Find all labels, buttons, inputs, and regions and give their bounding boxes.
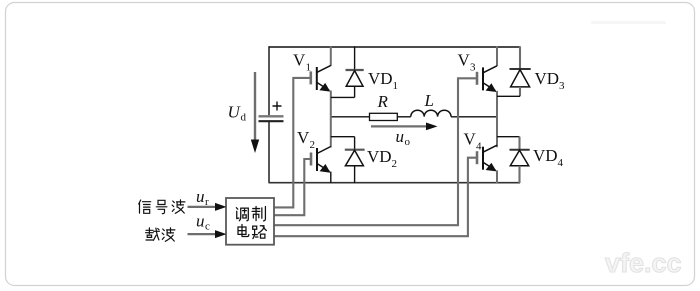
wire V3 gate bbox=[274, 78, 477, 225]
inductor L bbox=[411, 110, 451, 116]
svg-text:3: 3 bbox=[470, 62, 476, 74]
svg-text:c: c bbox=[205, 221, 210, 233]
svg-text:u: u bbox=[196, 212, 205, 231]
wire R to L bbox=[397, 116, 411, 118]
svg-text:2: 2 bbox=[310, 139, 316, 151]
svg-text:d: d bbox=[241, 112, 247, 124]
label uo bbox=[396, 127, 411, 148]
svg-text:o: o bbox=[405, 136, 411, 148]
diode VD2 bbox=[345, 137, 365, 183]
wire V1 gate bbox=[274, 78, 311, 208]
transistor V2 bbox=[311, 117, 331, 183]
label VD4 bbox=[533, 146, 564, 169]
svg-text:2: 2 bbox=[392, 158, 398, 170]
diode VD1 bbox=[346, 46, 364, 97]
svg-text:L: L bbox=[424, 91, 434, 110]
text 调制 (modulation) bbox=[236, 207, 265, 221]
label L bbox=[424, 91, 434, 110]
label VD3 bbox=[535, 69, 566, 92]
label u c bbox=[196, 212, 210, 233]
wire V4 gate bbox=[274, 158, 477, 237]
resistor R bbox=[370, 113, 398, 120]
text 载波 (carrier wave) bbox=[146, 228, 175, 241]
arrow uo bbox=[371, 123, 438, 131]
node output mid wire left bbox=[331, 116, 370, 118]
svg-text:u: u bbox=[396, 127, 405, 146]
arrow signal input bbox=[188, 203, 227, 211]
text 信号波 (signal wave) bbox=[139, 200, 185, 214]
wire left rail upper bbox=[268, 46, 270, 115]
svg-text:V: V bbox=[293, 51, 306, 70]
label V4 bbox=[464, 130, 483, 153]
svg-text:V: V bbox=[458, 51, 471, 70]
svg-text:U: U bbox=[228, 103, 242, 122]
wire V3 emitter to VD3 bbox=[497, 95, 520, 97]
transistor V1 bbox=[311, 46, 331, 117]
svg-text:u: u bbox=[196, 187, 205, 206]
label V1 bbox=[293, 51, 311, 74]
label R bbox=[377, 92, 389, 111]
svg-text:VD: VD bbox=[367, 147, 392, 166]
label VD2 bbox=[367, 147, 397, 170]
text 电路 (circuit) bbox=[238, 224, 266, 238]
svg-text:1: 1 bbox=[306, 62, 312, 74]
source arrow Ud bbox=[251, 72, 259, 153]
wire V4 collector to VD4 bbox=[497, 136, 520, 138]
svg-text:V: V bbox=[464, 130, 477, 149]
label V2 bbox=[297, 128, 315, 151]
svg-text:R: R bbox=[377, 92, 389, 111]
svg-text:VD: VD bbox=[535, 69, 560, 88]
label V3 bbox=[458, 51, 477, 74]
svg-text:vfe.cc: vfe.cc bbox=[605, 248, 682, 278]
diode VD3 bbox=[510, 46, 531, 96]
capacitor C (dc-link) bbox=[259, 102, 284, 122]
label VD1 bbox=[368, 69, 398, 92]
svg-text:4: 4 bbox=[476, 141, 482, 153]
transistor V3 bbox=[477, 46, 497, 117]
transistor V4 bbox=[477, 117, 497, 183]
svg-text:VD: VD bbox=[533, 146, 558, 165]
svg-text:VD: VD bbox=[368, 69, 393, 88]
arrow carrier input bbox=[188, 230, 227, 238]
label Ud bbox=[228, 103, 247, 124]
wire bottom rail bbox=[269, 182, 521, 184]
svg-text:1: 1 bbox=[393, 80, 399, 92]
diode VD4 bbox=[510, 137, 530, 183]
wire V2 collector to VD2 bbox=[331, 136, 355, 138]
label u r bbox=[196, 187, 209, 208]
modulation circuit box bbox=[226, 198, 274, 245]
svg-text:4: 4 bbox=[558, 157, 564, 169]
wire left rail lower bbox=[268, 122, 270, 183]
watermark vfe.cc bbox=[605, 248, 682, 278]
wire V2 gate bbox=[274, 159, 311, 215]
wire top rail bbox=[269, 46, 521, 48]
wire V1 emitter to VD1 bbox=[331, 96, 355, 98]
wire L to right leg bbox=[451, 116, 497, 118]
svg-text:3: 3 bbox=[559, 80, 565, 92]
svg-text:V: V bbox=[297, 128, 310, 147]
